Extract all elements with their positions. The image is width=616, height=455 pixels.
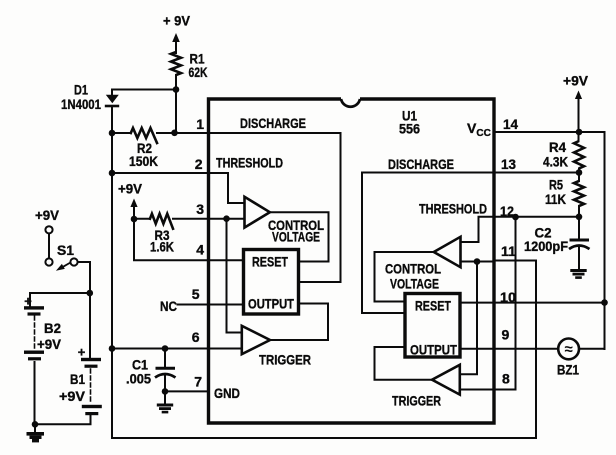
svg-text:VOLTAGE: VOLTAGE (390, 276, 439, 292)
svg-text:OUTPUT: OUTPUT (410, 342, 457, 358)
svg-text:4.3K: 4.3K (543, 155, 568, 170)
svg-text:1.6K: 1.6K (150, 240, 174, 255)
svg-text:1: 1 (196, 116, 204, 132)
svg-text:3: 3 (196, 201, 204, 217)
svg-text:NC: NC (160, 299, 177, 314)
svg-text:9: 9 (502, 327, 510, 343)
svg-text:B2: B2 (44, 321, 61, 336)
svg-text:+ 9V: + 9V (163, 14, 190, 29)
svg-text:11: 11 (501, 243, 516, 259)
svg-text:OUTPUT: OUTPUT (248, 296, 294, 312)
svg-text:BZ1: BZ1 (557, 363, 579, 378)
svg-text:62K: 62K (189, 65, 208, 80)
svg-text:+9V: +9V (59, 389, 85, 404)
svg-text:4: 4 (196, 242, 204, 258)
svg-text:+: + (78, 345, 86, 360)
svg-text:C1: C1 (132, 358, 148, 373)
svg-text:+9V: +9V (563, 74, 588, 89)
svg-text:.005: .005 (126, 372, 151, 387)
svg-text:+9V: +9V (118, 182, 142, 197)
svg-text:R5: R5 (549, 178, 563, 193)
svg-text:RESET: RESET (415, 298, 451, 314)
svg-text:TRIGGER: TRIGGER (392, 393, 441, 409)
svg-text:VOLTAGE: VOLTAGE (272, 229, 320, 245)
svg-text:150K: 150K (129, 154, 158, 169)
svg-text:DISCHARGE: DISCHARGE (388, 156, 454, 172)
svg-text:TRIGGER: TRIGGER (259, 352, 311, 368)
svg-text:B1: B1 (70, 372, 85, 387)
svg-text:THRESHOLD: THRESHOLD (419, 201, 487, 217)
svg-text:7: 7 (194, 374, 202, 390)
svg-text:S1: S1 (57, 243, 75, 258)
svg-text:RESET: RESET (252, 254, 288, 270)
svg-text:2: 2 (195, 156, 203, 172)
svg-text:R4: R4 (549, 140, 566, 155)
svg-text:14: 14 (503, 116, 518, 132)
svg-text:D1: D1 (74, 83, 88, 98)
svg-text:1200pF: 1200pF (524, 239, 568, 254)
svg-text:6: 6 (192, 329, 200, 345)
svg-text:THRESHOLD: THRESHOLD (216, 155, 283, 171)
svg-text:12: 12 (500, 203, 514, 219)
svg-text:CONTROL: CONTROL (385, 261, 441, 277)
svg-text:GND: GND (214, 385, 240, 401)
svg-text:10: 10 (500, 289, 516, 305)
svg-text:13: 13 (501, 156, 516, 172)
svg-text:DISCHARGE: DISCHARGE (240, 115, 306, 131)
svg-text:+: + (24, 294, 32, 309)
svg-text:≈: ≈ (564, 341, 572, 358)
svg-text:5: 5 (192, 286, 200, 302)
svg-text:+9V: +9V (37, 337, 61, 352)
svg-text:1N4001: 1N4001 (61, 97, 101, 112)
svg-text:+9V: +9V (35, 208, 59, 223)
svg-text:556: 556 (399, 121, 420, 137)
svg-text:8: 8 (502, 371, 510, 387)
svg-text:11K: 11K (545, 192, 566, 207)
